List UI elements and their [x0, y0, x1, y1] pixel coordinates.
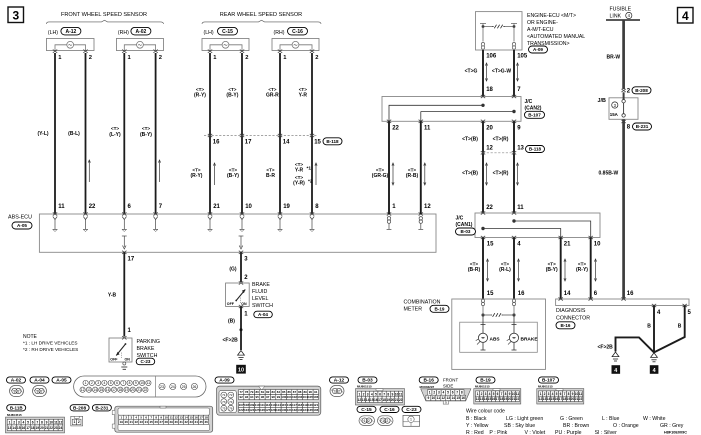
svg-text:26: 26	[192, 385, 196, 389]
meter internal resistor	[482, 314, 515, 316]
diagnosis connector B-16 bar	[556, 299, 689, 306]
ground diagnosis left	[612, 352, 619, 361]
svg-text:<T>: <T>	[408, 168, 416, 173]
svg-text:97: 97	[266, 395, 270, 399]
svg-text:(R-B): (R-B)	[406, 173, 419, 179]
svg-text:OR ENGINE-: OR ENGINE-	[527, 20, 558, 26]
front wheel speed sensor RH	[116, 30, 163, 61]
svg-text:4: 4	[443, 391, 445, 395]
svg-text:15: 15	[487, 291, 494, 297]
connector label B-19	[430, 305, 449, 312]
ABS-ECU input terminal	[83, 212, 87, 215]
note block	[23, 334, 78, 352]
svg-text:DIAGNOSIS: DIAGNOSIS	[556, 308, 586, 314]
svg-text:3: 3	[367, 392, 369, 396]
svg-text:14: 14	[283, 140, 290, 146]
CAN1 bus wiring	[482, 220, 591, 238]
svg-text:A-12: A-12	[65, 29, 76, 35]
connector label B-107	[525, 111, 545, 118]
svg-text:17: 17	[26, 426, 30, 430]
ground brake fluid switch	[238, 351, 245, 360]
pinout label C-16	[380, 406, 399, 413]
svg-text:88: 88	[298, 390, 302, 394]
svg-text:C-15: C-15	[222, 29, 233, 35]
svg-text:W : White: W : White	[643, 416, 666, 422]
svg-text:3: 3	[97, 381, 99, 385]
svg-text:(Y-R): (Y-R)	[293, 181, 305, 187]
svg-text:2: 2	[433, 391, 435, 395]
svg-text:2: 2	[41, 389, 43, 393]
svg-text:22: 22	[89, 204, 96, 210]
CAN2 top terminal	[512, 95, 516, 98]
pinout connector A-05	[74, 376, 206, 397]
svg-text:<T>: <T>	[299, 87, 307, 92]
svg-text:7: 7	[501, 392, 503, 396]
svg-text:18: 18	[486, 87, 493, 93]
pinout label A-04	[30, 377, 49, 384]
CAN2 bus wiring	[389, 104, 515, 121]
svg-text:C-23: C-23	[141, 359, 151, 364]
ground ref box 4 left	[612, 365, 621, 374]
svg-text:12: 12	[486, 146, 493, 152]
svg-text:15A: 15A	[610, 112, 619, 117]
svg-text:<T>: <T>	[501, 262, 509, 267]
CAN2 bottom terminal	[512, 120, 516, 123]
svg-text:FRONT WHEEL SPEED SENSOR: FRONT WHEEL SPEED SENSOR	[61, 12, 147, 18]
svg-text:94: 94	[250, 395, 254, 399]
svg-text:11: 11	[579, 392, 583, 396]
svg-text:22: 22	[516, 397, 520, 401]
wire T R-B	[420, 121, 422, 214]
connector label C-15	[218, 27, 238, 35]
arrow CAN branch	[486, 259, 488, 281]
svg-text:B-16: B-16	[423, 378, 434, 384]
brake fluid level switch A-04	[226, 281, 250, 308]
svg-text:0.85B-W: 0.85B-W	[599, 171, 619, 177]
svg-text:B-118: B-118	[326, 139, 339, 144]
svg-text:Wire colour code: Wire colour code	[466, 409, 505, 415]
svg-text:19: 19	[120, 420, 124, 424]
svg-text:21: 21	[45, 426, 49, 430]
svg-text:*2: *2	[308, 179, 313, 185]
pinout label C-15	[357, 406, 376, 413]
svg-text:30: 30	[175, 420, 179, 424]
svg-text:1: 1	[37, 389, 39, 393]
junction B-118	[208, 134, 212, 137]
arrow R-B	[424, 163, 426, 185]
svg-text:16: 16	[194, 416, 198, 420]
svg-text:24: 24	[59, 426, 63, 430]
svg-text:10: 10	[165, 416, 169, 420]
arrow T B	[485, 163, 487, 185]
svg-text:2: 2	[481, 392, 483, 396]
combination meter label	[404, 300, 441, 313]
svg-text:B-118: B-118	[529, 147, 542, 152]
svg-text:4: 4	[614, 368, 617, 374]
CAN2 bottom terminal	[387, 120, 391, 123]
svg-text:C-16: C-16	[384, 407, 395, 413]
svg-text:29: 29	[170, 420, 174, 424]
pinout label B-208	[70, 405, 89, 412]
svg-text:B-231: B-231	[636, 124, 649, 129]
svg-text:3: 3	[485, 392, 487, 396]
svg-text:17: 17	[245, 140, 252, 146]
svg-text:13: 13	[517, 146, 524, 152]
ABS-ECU input terminal	[208, 212, 212, 215]
wire T B-Y	[560, 238, 562, 300]
svg-text:9: 9	[46, 420, 48, 424]
svg-text:19: 19	[283, 204, 290, 210]
svg-text:SWITCH: SWITCH	[252, 303, 273, 309]
J/C CAN2 B-107 box	[382, 97, 521, 122]
J/C CAN1 label	[456, 216, 473, 229]
svg-text:2: 2	[338, 389, 340, 393]
svg-text:B-231: B-231	[95, 406, 108, 412]
svg-text:B-107: B-107	[542, 378, 555, 384]
CAN1 top terminal	[512, 211, 516, 214]
page marker 4	[678, 8, 694, 24]
svg-text:9: 9	[427, 396, 429, 400]
svg-text:SB : Sky blue: SB : Sky blue	[504, 423, 535, 429]
svg-text:83: 83	[271, 390, 275, 394]
svg-text:26: 26	[155, 420, 159, 424]
svg-text:<F>2B: <F>2B	[223, 338, 239, 344]
svg-text:20: 20	[40, 426, 44, 430]
wire B pin4	[653, 306, 655, 353]
connector label B-118 (CAN)	[526, 146, 545, 153]
CAN1 bottom terminal	[559, 236, 563, 239]
label PARKING BRAKE SWITCH	[137, 339, 160, 359]
svg-text:<T>(B): <T>(B)	[462, 137, 478, 143]
wire front LH pin2 (B-L)	[85, 53, 87, 214]
svg-text:16: 16	[461, 396, 465, 400]
svg-text:121: 121	[313, 403, 318, 407]
svg-text:10: 10	[140, 381, 144, 385]
svg-text:89: 89	[303, 390, 307, 394]
svg-text:(G): (G)	[229, 267, 237, 273]
svg-text:C-15: C-15	[361, 407, 372, 413]
header FRONT WHEEL SPEED SENSOR	[46, 12, 163, 24]
svg-text:27: 27	[160, 420, 164, 424]
svg-text:11: 11	[170, 416, 174, 420]
wire T GR-G	[388, 121, 390, 214]
svg-text:B-11B: B-11B	[10, 405, 24, 410]
svg-text:B: B	[678, 324, 682, 330]
svg-text:16: 16	[627, 291, 634, 297]
CAN2 bottom terminal	[419, 120, 423, 123]
svg-text:28: 28	[165, 420, 169, 424]
rear wheel speed sensor LH	[202, 30, 249, 61]
svg-text:4: 4	[552, 392, 554, 396]
svg-text:2: 2	[89, 55, 92, 61]
intermediate connector B-118 dashed line	[204, 135, 318, 137]
svg-text:14: 14	[12, 426, 16, 430]
svg-text:O : Orange: O : Orange	[613, 423, 639, 429]
svg-text:1: 1	[540, 392, 542, 396]
svg-text:13: 13	[87, 388, 91, 392]
svg-text:LEVEL: LEVEL	[252, 296, 269, 302]
svg-text:MU801515: MU801515	[538, 384, 553, 388]
connector label A-05 (ABS-ECU)	[12, 222, 32, 229]
page marker 3	[8, 7, 24, 23]
svg-text:A-M/T-ECU: A-M/T-ECU	[527, 27, 554, 33]
svg-text:13: 13	[446, 396, 450, 400]
ABS-ECU output terminal	[239, 236, 244, 249]
svg-text:76: 76	[229, 406, 233, 410]
svg-text:B-16: B-16	[561, 323, 571, 328]
pinout connector B-107	[537, 389, 584, 404]
svg-text:(B-Y): (B-Y)	[227, 173, 239, 179]
svg-text:<T>: <T>	[192, 168, 200, 173]
svg-text:<T>: <T>	[470, 262, 478, 267]
ABS-ECU CAN terminal	[419, 212, 423, 215]
svg-text:BRAKE: BRAKE	[521, 336, 539, 342]
svg-text:(RH): (RH)	[274, 30, 285, 36]
svg-text:98: 98	[271, 395, 275, 399]
svg-text:2: 2	[368, 419, 370, 423]
svg-text:19: 19	[35, 426, 39, 430]
svg-text:<T>: <T>	[142, 126, 150, 131]
wire front RH pin2 (B-Y)	[155, 53, 157, 214]
svg-text:84: 84	[277, 390, 281, 394]
svg-text:86: 86	[287, 390, 291, 394]
svg-text:MU804515: MU804515	[7, 413, 22, 417]
svg-text:B-03: B-03	[461, 229, 471, 234]
svg-text:1: 1	[410, 418, 412, 422]
wire T B CAN	[482, 121, 484, 213]
wire T R-Y	[590, 238, 592, 300]
svg-text:15: 15	[100, 388, 104, 392]
svg-text:80: 80	[255, 390, 259, 394]
connector label B-03	[456, 228, 476, 235]
arrow T R	[516, 163, 518, 185]
wire 0.85B-W	[622, 119, 625, 299]
svg-text:NOTE: NOTE	[23, 334, 38, 340]
svg-text:12: 12	[424, 204, 431, 210]
svg-text:14: 14	[564, 291, 571, 297]
svg-text:1: 1	[364, 419, 366, 423]
pinout connector A-04	[33, 386, 47, 397]
label FRONT SIDE	[443, 378, 458, 389]
engine ECU label	[527, 13, 585, 47]
svg-text:(CAN2): (CAN2)	[525, 106, 542, 112]
engine ECU A-09 box	[476, 12, 523, 50]
junction B-118	[240, 134, 244, 137]
svg-text:10: 10	[432, 396, 436, 400]
pinout connector A-02	[10, 386, 24, 397]
svg-text:8: 8	[41, 420, 43, 424]
svg-text:21: 21	[137, 388, 141, 392]
svg-text:2: 2	[544, 392, 546, 396]
diagnosis top terminal	[621, 297, 625, 300]
pinout label A-09	[215, 377, 234, 384]
svg-text:87: 87	[293, 390, 297, 394]
parking brake switch C-23	[109, 336, 132, 369]
svg-text:(R-Y): (R-Y)	[191, 173, 203, 179]
pinout connector B-11B	[6, 417, 65, 433]
svg-text:<T>(B): <T>(B)	[462, 171, 478, 177]
wire (B) to ground	[240, 307, 242, 351]
svg-text:99: 99	[277, 395, 281, 399]
svg-text:PARKING: PARKING	[137, 339, 160, 345]
ABS-ECU input terminal	[122, 212, 126, 215]
svg-text:P : Pink: P : Pink	[489, 430, 507, 435]
pinout label A-05	[52, 377, 71, 384]
pinout connector B-231	[112, 406, 213, 432]
pinout label A-02	[7, 377, 26, 384]
svg-text:8: 8	[387, 392, 389, 396]
wire T G CAN high	[482, 50, 484, 97]
svg-text:15: 15	[314, 140, 321, 146]
wire rear LH pin2 (B-Y)	[241, 53, 243, 214]
svg-text:92: 92	[239, 395, 243, 399]
svg-text:MU803297: MU803297	[420, 385, 435, 389]
svg-text:3: 3	[18, 420, 20, 424]
svg-text:22: 22	[144, 388, 148, 392]
svg-text:<T>G-W: <T>G-W	[492, 69, 511, 75]
svg-text:A-02: A-02	[11, 378, 22, 384]
svg-text:B-19: B-19	[480, 378, 491, 384]
meter terminals	[481, 299, 515, 315]
pinout connector B-16	[421, 389, 471, 401]
svg-text:ON: ON	[125, 357, 131, 361]
arrow CAN branch	[594, 259, 596, 281]
splice dot	[240, 328, 243, 331]
ground ref box 4 right	[650, 365, 659, 374]
svg-text:<AUTOMATED MANUAL: <AUTOMATED MANUAL	[527, 34, 585, 40]
svg-text:5: 5	[27, 420, 29, 424]
lamp BRAKE	[507, 315, 519, 350]
svg-text:G : Green: G : Green	[560, 416, 583, 422]
svg-text:12: 12	[175, 416, 179, 420]
svg-text:21: 21	[564, 242, 571, 248]
svg-text:(GR-G): (GR-G)	[372, 173, 389, 179]
svg-text:GR : Grey: GR : Grey	[660, 423, 684, 429]
connector label B-16	[556, 322, 575, 329]
svg-text:23: 23	[160, 385, 164, 389]
svg-text:19: 19	[125, 388, 129, 392]
svg-text:1: 1	[14, 389, 16, 393]
svg-text:15: 15	[17, 426, 21, 430]
B-118 dashed link	[483, 152, 514, 154]
pinout label B-11B	[7, 405, 26, 411]
svg-text:11: 11	[424, 126, 431, 132]
ABS-ECU input terminal	[153, 212, 157, 215]
svg-text:20: 20	[486, 126, 493, 132]
B-118 terminal	[481, 151, 485, 154]
svg-text:11: 11	[437, 396, 441, 400]
svg-text:<T>: <T>	[548, 262, 556, 267]
svg-text:8: 8	[129, 381, 131, 385]
connector label A-02	[131, 27, 151, 35]
svg-text:1: 1	[85, 381, 87, 385]
svg-text:2: 2	[315, 55, 318, 61]
svg-text:B-208: B-208	[73, 406, 86, 412]
ABS-ECU input terminal	[310, 212, 314, 215]
pinout label B-107	[539, 377, 559, 384]
pinout label B-231	[92, 405, 111, 412]
svg-text:74: 74	[229, 400, 233, 404]
svg-text:106: 106	[313, 395, 318, 399]
svg-text:6: 6	[116, 381, 118, 385]
engine ECU internal CAN terminator	[480, 24, 517, 50]
svg-text:ABS-ECU: ABS-ECU	[8, 215, 32, 221]
diagnosis bottom terminal	[652, 304, 656, 307]
svg-text:17: 17	[112, 388, 116, 392]
svg-text:1: 1	[382, 419, 384, 423]
svg-text:SI : Silver: SI : Silver	[595, 430, 617, 435]
svg-text:79: 79	[250, 390, 254, 394]
svg-text:12: 12	[59, 420, 63, 424]
svg-text:20: 20	[131, 388, 135, 392]
svg-text:22: 22	[392, 126, 399, 132]
svg-text:82: 82	[266, 390, 270, 394]
svg-text:17: 17	[199, 416, 203, 420]
svg-text:18: 18	[118, 388, 122, 392]
svg-text:4: 4	[653, 368, 656, 374]
svg-text:11: 11	[517, 205, 524, 211]
svg-text:23: 23	[140, 420, 144, 424]
svg-text:35: 35	[199, 420, 203, 424]
svg-text:15: 15	[456, 396, 460, 400]
svg-text:5: 5	[375, 392, 377, 396]
svg-text:2: 2	[91, 381, 93, 385]
svg-text:R : Red: R : Red	[466, 430, 484, 435]
svg-text:8: 8	[461, 391, 463, 395]
svg-text:LINK: LINK	[610, 13, 622, 19]
svg-text:H8F10E009C: H8F10E009C	[664, 430, 687, 434]
svg-text:7: 7	[383, 392, 385, 396]
svg-text:ABS: ABS	[490, 336, 501, 342]
lamp ABS	[476, 315, 488, 350]
svg-text:5: 5	[110, 381, 112, 385]
svg-text:1: 1	[334, 389, 336, 393]
junction B-118	[310, 134, 314, 137]
svg-text:110: 110	[255, 403, 260, 407]
junction B-118	[278, 134, 282, 137]
rear wheel speed sensor RH	[272, 30, 319, 61]
svg-text:FRONT: FRONT	[443, 378, 458, 383]
svg-text:11: 11	[516, 392, 520, 396]
svg-text:BR-W: BR-W	[607, 55, 621, 61]
combination meter box B-19	[452, 299, 546, 369]
front wheel speed sensor LH	[46, 30, 94, 61]
connector label B-231	[633, 123, 652, 130]
svg-text:<T>: <T>	[295, 162, 303, 167]
junction block J/B	[609, 92, 638, 119]
svg-text:LG : Light green: LG : Light green	[506, 416, 543, 422]
svg-text:<T>: <T>	[578, 262, 586, 267]
svg-text:(LH): (LH)	[204, 30, 214, 36]
meter inner box	[460, 322, 538, 352]
CAN2 bottom terminal	[481, 120, 485, 123]
svg-text:31: 31	[180, 420, 184, 424]
svg-text:(LH): (LH)	[48, 30, 58, 36]
svg-text:(L-Y): (L-Y)	[109, 132, 121, 138]
svg-text:6: 6	[379, 392, 381, 396]
svg-text:*1: *1	[307, 166, 312, 172]
svg-text:105: 105	[517, 54, 528, 60]
fusible link 4	[606, 7, 640, 21]
svg-text:11: 11	[399, 392, 403, 396]
svg-text:93: 93	[245, 395, 249, 399]
svg-text:1: 1	[73, 420, 75, 424]
svg-text:J/B: J/B	[598, 98, 606, 104]
svg-text:96: 96	[261, 395, 265, 399]
svg-text:3: 3	[438, 391, 440, 395]
svg-text:4: 4	[489, 392, 491, 396]
svg-text:20: 20	[125, 420, 129, 424]
